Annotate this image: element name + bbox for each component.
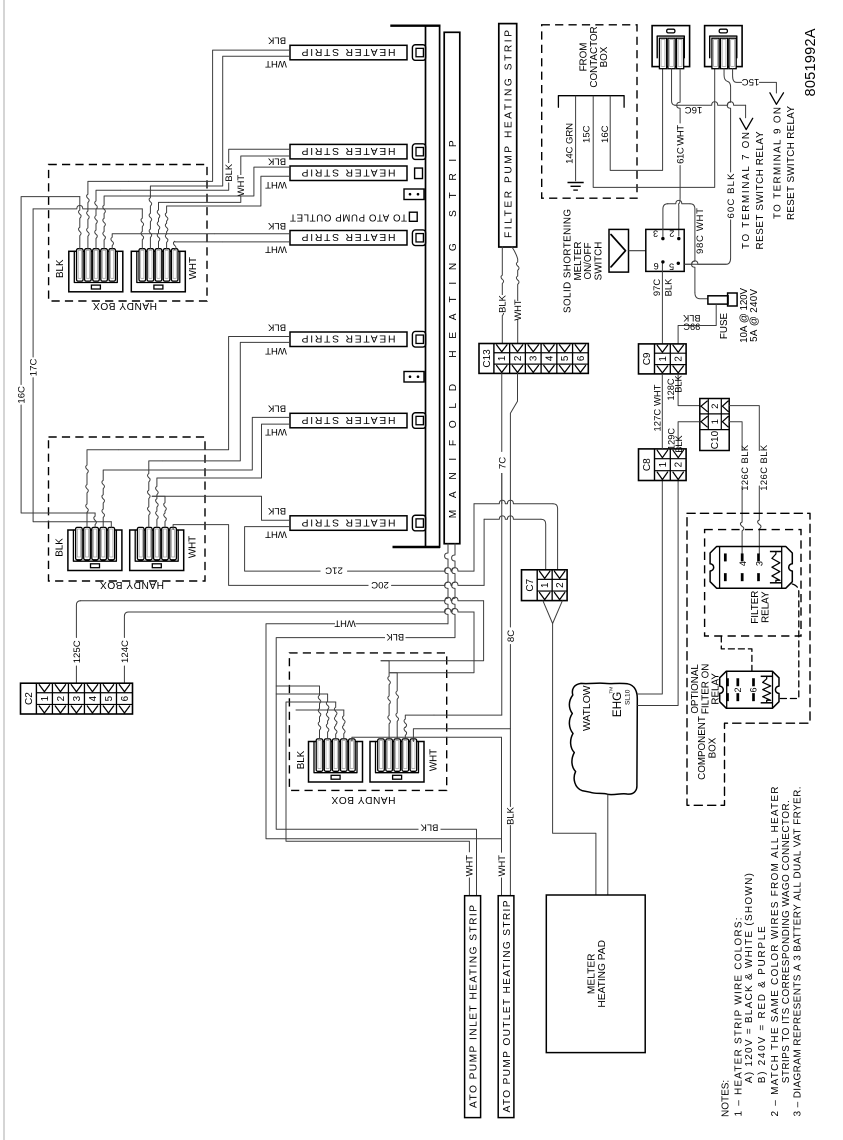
svg-text:126C BLK: 126C BLK [739, 444, 750, 491]
svg-text:2: 2 [555, 582, 566, 587]
wire WATLOW to C8 pin2 [637, 481, 678, 706]
svg-text:C8: C8 [642, 458, 653, 471]
wire switch terminal 3 to 98C WHT to fuse [663, 204, 668, 237]
wire heater strip 5 BLK [118, 337, 290, 450]
wire heater strip 5 WHT [162, 342, 290, 461]
svg-text:EHG: EHG [610, 692, 624, 718]
melter switch contact box [646, 229, 684, 271]
svg-text:BLK: BLK [54, 538, 65, 557]
svg-text:BOX: BOX [599, 46, 610, 67]
svg-text:14C GRN: 14C GRN [564, 123, 575, 164]
svg-text:STRIPS TO ITS CORRESPONDING WA: STRIPS TO ITS CORRESPONDING WAGO CONNECT… [781, 800, 792, 1083]
wire heater strip 1 WHT [160, 56, 290, 186]
wire 7C from C13 pin1 [501, 373, 503, 451]
handy box 2 left wago connector [68, 530, 122, 571]
svg-text:CONTACTOR: CONTACTOR [589, 26, 600, 87]
svg-text:WHT: WHT [265, 179, 287, 190]
svg-text:4: 4 [738, 561, 748, 566]
svg-text:WHT: WHT [512, 299, 523, 321]
connector C10 [700, 399, 729, 451]
svg-text:HEATING PAD: HEATING PAD [597, 940, 608, 1008]
svg-text:BLK: BLK [55, 259, 66, 278]
WATLOW EHG controller blob [569, 683, 637, 794]
svg-text:1: 1 [710, 419, 721, 424]
heater strip 3 square connector [415, 168, 423, 179]
filter pump heating strip [499, 24, 517, 247]
svg-text:WHT: WHT [235, 175, 246, 197]
wire 15C plug to terminal-9 arrow [733, 69, 777, 93]
svg-text:SWITCH: SWITCH [594, 242, 605, 281]
manifold heating strip element box [444, 32, 460, 543]
label BLK on run [385, 633, 406, 643]
svg-text:WHT: WHT [428, 749, 439, 771]
svg-text:FILTER: FILTER [750, 591, 761, 624]
svg-text:WHT: WHT [265, 345, 287, 356]
svg-text:HANDY BOX: HANDY BOX [100, 579, 164, 590]
label 17C [28, 358, 39, 378]
handy box 3 right wago connector [370, 742, 424, 783]
label 15C at plug [742, 78, 759, 87]
svg-text:BLK: BLK [267, 155, 286, 166]
svg-text:BLK: BLK [223, 163, 234, 181]
svg-text:BLK: BLK [267, 321, 286, 332]
label 8C [505, 629, 516, 644]
svg-text:SL10: SL10 [625, 689, 632, 705]
svg-text:1: 1 [658, 356, 669, 361]
heater strip 1 [290, 45, 407, 60]
wire WHT run to ato outlet strip [266, 624, 502, 839]
connector C2 [21, 683, 133, 714]
heater strip 2 plug [412, 144, 425, 160]
svg-text:8C: 8C [506, 630, 517, 642]
wire WATLOW to melter heating pad [607, 795, 609, 896]
wire 61C WHT plug to switch terminal 2 [677, 69, 680, 123]
wire heater strip 6 WHT [172, 424, 290, 478]
heater strip 4 plug [412, 230, 425, 246]
melter heating pad [546, 895, 645, 1053]
svg-text:HANDY BOX: HANDY BOX [331, 794, 395, 805]
svg-text:125C: 125C [72, 640, 83, 663]
switch terminal 6 [661, 260, 664, 263]
manifold top flange line [390, 25, 440, 27]
svg-text:5: 5 [560, 355, 571, 361]
optional filter on relay [720, 671, 779, 708]
label BLK on strip2 wire [224, 163, 234, 183]
svg-text:BLK: BLK [497, 294, 508, 312]
wire heater strip 3 WHT [175, 176, 290, 206]
label 16C [16, 386, 27, 405]
heater strip 6 plug [412, 413, 425, 429]
svg-text:1 – HEATER STRIP WIRE COLORS:: 1 – HEATER STRIP WIRE COLORS: [734, 918, 745, 1117]
svg-text:3 – DIAGRAM REPRESENTS A 3 BAT: 3 – DIAGRAM REPRESENTS A 3 BATTERY ALL D… [792, 787, 803, 1117]
svg-text:BLK: BLK [505, 806, 516, 824]
svg-text:C2: C2 [24, 692, 35, 705]
svg-text:1: 1 [540, 582, 551, 587]
svg-text:2: 2 [513, 356, 524, 361]
svg-text:16C: 16C [16, 386, 27, 404]
wire 16C contactor to plug [610, 69, 662, 171]
svg-text:2 – MATCH THE SAME COLOR WIRES: 2 – MATCH THE SAME COLOR WIRES FROM ALL … [770, 787, 781, 1117]
svg-text:RELAY: RELAY [761, 591, 772, 623]
svg-text:1: 1 [497, 356, 508, 361]
handy box 3 left wago connector [309, 742, 363, 783]
connector C9 [639, 344, 687, 374]
heater strip 7 [290, 516, 407, 531]
switch terminal 3 [661, 237, 664, 240]
svg-text:3: 3 [529, 355, 540, 361]
svg-text:RESET SWITCH RELAY: RESET SWITCH RELAY [755, 131, 766, 249]
wire manifold strip WHT tail [445, 544, 448, 624]
wire C10 pin1 to filter relay pin4 (126C BLK) [729, 422, 742, 451]
left molex plug housing [652, 26, 690, 67]
svg-text:WHT: WHT [334, 618, 356, 629]
heater strip 4 [290, 231, 407, 246]
svg-text:3: 3 [754, 561, 764, 566]
wire filter pump strip WHT to C13 pin2 [512, 247, 519, 344]
switch link [629, 250, 646, 252]
ato pump inlet heating strip [465, 896, 481, 1118]
svg-text:4: 4 [88, 695, 99, 701]
svg-text:1: 1 [658, 462, 669, 467]
svg-text:HANDY BOX: HANDY BOX [93, 300, 157, 311]
C7 funnel to single wire [543, 601, 562, 624]
svg-text:6: 6 [654, 261, 659, 271]
svg-text:6: 6 [749, 687, 759, 692]
wire heater strip 2 BLK [120, 149, 290, 190]
wire 16C [21, 197, 80, 385]
melter on/off switch rocker [609, 229, 629, 272]
svg-text:7C: 7C [498, 457, 509, 469]
heater strip 5 [290, 332, 407, 347]
wire C10 pin2 to filter relay pin3 (126C BLK) [729, 406, 759, 451]
svg-text:5: 5 [104, 695, 115, 701]
switch terminal 5 [677, 262, 680, 265]
heater strip 2 [290, 144, 407, 159]
svg-text:HEATER STRIP: HEATER STRIP [301, 145, 395, 156]
svg-text:127C WHT: 127C WHT [651, 384, 662, 431]
manifold heating strip body [426, 26, 440, 547]
wire C10 pin1 to C8 pin2 (129C BLK) [678, 422, 700, 449]
filter relay [710, 547, 792, 589]
connector block with 2 contacts (lower) [404, 372, 424, 383]
svg-text:RESET SWITCH RELAY: RESET SWITCH RELAY [786, 106, 797, 220]
wire 17C [33, 206, 142, 209]
svg-text:WHT: WHT [265, 243, 287, 254]
component box dashed enclosure [687, 513, 810, 805]
svg-text:2: 2 [710, 404, 721, 409]
wire 16C plug to terminal-7 arrow [672, 69, 676, 106]
svg-text:61C WHT: 61C WHT [676, 125, 687, 164]
wire switch terminal 5 horizontal [684, 261, 726, 264]
wire WATLOW to C8 pin1 [637, 481, 662, 695]
dashed link filter relay to optional relay (right) [779, 584, 799, 699]
svg-text:HEATER STRIP: HEATER STRIP [301, 167, 395, 178]
svg-text:HEATER STRIP: HEATER STRIP [301, 414, 395, 425]
heater strip 7 plug [412, 515, 425, 531]
svg-text:C7: C7 [525, 578, 536, 591]
svg-text:FUSE: FUSE [719, 312, 730, 339]
svg-text:2: 2 [56, 696, 67, 701]
svg-text:WHT: WHT [496, 855, 507, 877]
svg-text:C13: C13 [482, 349, 493, 368]
svg-text:TM: TM [608, 687, 614, 694]
svg-text:5: 5 [669, 262, 674, 272]
wire heater strip 6 BLK [108, 417, 290, 470]
wire 125C from C2 pin3 to handy box 3 [75, 666, 77, 683]
connector C13 [479, 344, 588, 374]
label WHT ato inlet [465, 854, 475, 878]
heater strip 1 plug [412, 45, 425, 61]
wire 124C from C2 pin6 to handy box 3 [123, 666, 125, 683]
svg-text:17C: 17C [28, 359, 39, 377]
connector C7 [522, 570, 568, 601]
wire C9 pin2 to C10 pin2 (128C BLK) [678, 374, 700, 406]
ato pump outlet square terminal [409, 212, 417, 221]
svg-text:15C: 15C [581, 125, 592, 143]
svg-text:BLK: BLK [662, 278, 673, 296]
wire heater strip 7 BLK [152, 496, 290, 520]
svg-text:BLK: BLK [674, 434, 684, 452]
dashed link filter relay to optional relay (left) [721, 636, 752, 671]
svg-text:BLK: BLK [267, 505, 286, 516]
wire 20C from handy box 2 [173, 525, 368, 586]
svg-text:RELAY: RELAY [711, 673, 722, 705]
svg-text:3: 3 [653, 229, 658, 239]
svg-text:99C: 99C [683, 321, 700, 331]
heater strip 3 [290, 166, 407, 181]
svg-text:C9: C9 [642, 352, 653, 365]
svg-text:BLK: BLK [267, 403, 286, 414]
handy box 1 dashed enclosure [49, 165, 207, 302]
label 7C [497, 453, 508, 474]
svg-text:HEATER STRIP: HEATER STRIP [301, 46, 395, 57]
ground symbol [568, 182, 584, 184]
wire 14C GRN [575, 96, 577, 182]
wire heater strip 4 WHT [222, 241, 290, 243]
handy box 3 dashed enclosure [289, 653, 446, 791]
connector C8 [639, 449, 687, 481]
handy box 2 dashed enclosure [49, 437, 206, 581]
wire 8C from C13 pin2 (slant jog) [510, 373, 517, 627]
svg-text:NOTES:: NOTES: [721, 1080, 732, 1117]
svg-text:4: 4 [544, 355, 555, 361]
ato pump outlet heating strip [498, 896, 514, 1118]
wire inlet WHT feed [286, 702, 469, 852]
svg-text:2: 2 [669, 229, 674, 239]
svg-text:A) 120V = BLACK & WHITE (SHOWN: A) 120V = BLACK & WHITE (SHOWN) [744, 873, 755, 1083]
svg-text:126C BLK: 126C BLK [758, 444, 769, 491]
label WHT on strip2 wire [236, 175, 246, 196]
svg-text:BLK: BLK [386, 632, 404, 643]
svg-text:BLK: BLK [674, 374, 684, 392]
svg-text:COMPONENT: COMPONENT [697, 716, 708, 780]
manifold bottom flange line [393, 546, 441, 548]
svg-text:2: 2 [674, 356, 685, 361]
wire outlet WHT feed [352, 737, 502, 741]
wire 15C contactor to plug [593, 69, 715, 188]
wire fuse to C9 pin2 (99C BLK) [678, 304, 716, 344]
label WHT ato outlet [497, 854, 507, 878]
wire heater strip 3 BLK [110, 167, 290, 196]
wire switch terminal 6 to 97C BLK to C9 pin1 [661, 264, 663, 344]
label WHT on run [335, 619, 356, 629]
svg-text:BLK: BLK [420, 823, 438, 834]
label 60C BLK [726, 173, 736, 220]
svg-text:WHT: WHT [265, 58, 287, 69]
svg-text:TO TERMINAL 9 ON: TO TERMINAL 9 ON [772, 107, 783, 219]
svg-text:HEATER STRIP: HEATER STRIP [301, 516, 395, 527]
wire 7C into handy box 3 [434, 714, 502, 716]
svg-text:ATO PUMP INLET HEATING STRIP: ATO PUMP INLET HEATING STRIP [468, 905, 479, 1108]
handy box 1 right wago connector [131, 251, 185, 291]
svg-text:21C: 21C [325, 565, 343, 576]
fuse [708, 296, 728, 304]
contactor bracket [558, 96, 624, 108]
wire filter pump strip BLK to C13 pin1 [501, 247, 504, 344]
svg-text:124C: 124C [120, 640, 131, 663]
svg-text:20C: 20C [371, 579, 389, 590]
wire handy box 3 to 8C junction [413, 729, 510, 742]
svg-text:16C: 16C [685, 104, 703, 115]
svg-text:WHT: WHT [265, 529, 287, 540]
wire C9 pin1 to C8 pin1 (127C WHT) [661, 374, 663, 449]
svg-text:MELTER: MELTER [573, 241, 584, 280]
contactor box dashed enclosure [542, 25, 637, 198]
arrow to terminal 7 [740, 118, 753, 129]
svg-text:BOX: BOX [708, 737, 719, 758]
svg-text:TO ATO PUMP OUTLET: TO ATO PUMP OUTLET [290, 212, 407, 223]
wire heater strip 2 WHT [168, 156, 290, 202]
svg-text:HEATER STRIP: HEATER STRIP [301, 333, 395, 344]
wire heater strip 1 BLK [128, 50, 290, 181]
wire 21C from heater strip 7 WHT [245, 527, 321, 572]
svg-text:BLK: BLK [267, 35, 286, 46]
svg-text:FILTER PUMP HEATING STRIP: FILTER PUMP HEATING STRIP [503, 30, 514, 238]
svg-text:6: 6 [576, 355, 587, 361]
wire C7 to melter heating pad [553, 624, 596, 896]
svg-text:5A @ 240V: 5A @ 240V [749, 288, 760, 341]
filter relay dashed enclosure [705, 530, 801, 636]
label WHT [513, 301, 523, 319]
connector block with 2 contacts (upper) [404, 189, 424, 200]
svg-text:1: 1 [40, 696, 51, 701]
svg-text:16C: 16C [600, 125, 611, 143]
svg-text:BLK: BLK [296, 750, 307, 769]
handy box 1 left wago connector [69, 251, 123, 291]
handy box 2 right wago connector [130, 530, 184, 571]
svg-text:15C: 15C [742, 76, 760, 87]
wire BLK run to ato inlet strip [276, 638, 455, 830]
svg-text:WHT: WHT [187, 536, 198, 558]
heater strip 6 [290, 413, 407, 428]
wire manifold strip BLK tail [452, 544, 455, 638]
svg-text:60C BLK: 60C BLK [726, 173, 737, 219]
border frame line (left page edge) [3, 0, 5, 1140]
label 61C WHT [675, 124, 685, 165]
svg-text:97C: 97C [651, 279, 662, 296]
svg-text:6: 6 [120, 695, 131, 701]
wire 60C BLK plug to switch terminal 5 [724, 69, 731, 101]
svg-text:WHT: WHT [188, 257, 199, 279]
heater strip 5 plug [412, 331, 425, 347]
label BLK [498, 295, 508, 313]
arrow to terminal 9 [770, 93, 784, 105]
label BLK on 8C wire [505, 807, 516, 825]
svg-text:WATLOW: WATLOW [582, 685, 593, 731]
wire heater strip 4 BLK [214, 233, 290, 235]
svg-text:WHT: WHT [265, 426, 287, 437]
wire handy box 3 internal feed 4 [296, 709, 344, 711]
svg-text:WHT: WHT [464, 855, 475, 877]
right molex plug housing [705, 26, 743, 67]
svg-text:C10: C10 [710, 430, 721, 449]
svg-text:ON/OFF: ON/OFF [583, 242, 594, 279]
svg-text:8051992A: 8051992A [803, 28, 819, 96]
switch terminal 2 [677, 237, 680, 240]
wire handy box 3 left feeds [276, 685, 319, 687]
svg-text:HEATER STRIP: HEATER STRIP [301, 231, 395, 242]
svg-text:98C WHT: 98C WHT [695, 208, 706, 254]
svg-text:2: 2 [733, 687, 743, 692]
svg-text:BLK: BLK [267, 220, 286, 231]
svg-text:2: 2 [674, 462, 685, 467]
svg-text:3: 3 [72, 695, 83, 701]
svg-text:MELTER: MELTER [586, 954, 597, 995]
